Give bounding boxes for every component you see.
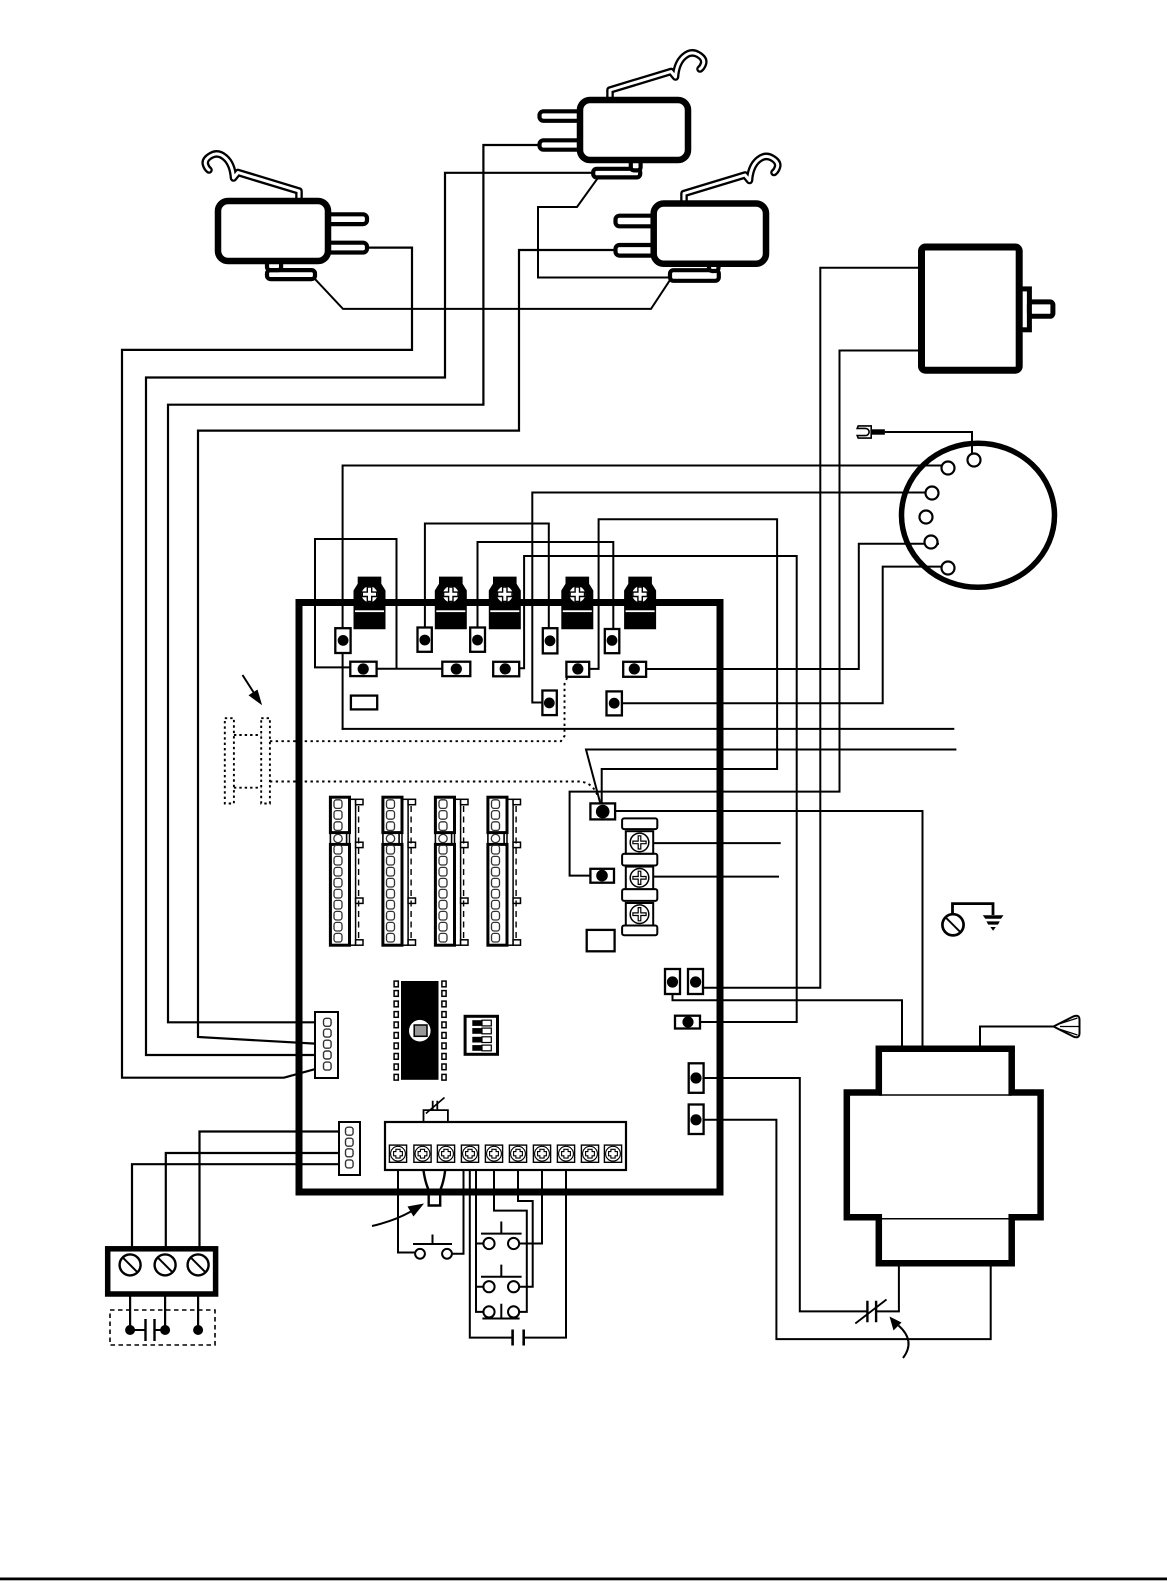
wire nut bbox=[1054, 1016, 1080, 1038]
pushbutton PB1 bbox=[413, 1235, 452, 1259]
pad B1 (row2) bbox=[350, 662, 376, 676]
pad A2 bbox=[418, 628, 432, 652]
connector strip P4 bbox=[488, 797, 521, 945]
relay post K4 bbox=[561, 577, 593, 630]
control board outline bbox=[299, 603, 720, 1193]
wire big-dot terminal D1 to transformer primary bbox=[615, 811, 922, 1049]
pad B2 bbox=[442, 662, 470, 676]
wire big-dot terminal D1 diagonal to blunt end right bbox=[586, 750, 955, 807]
wire board terminal block TB2 screw2 to blunt end bbox=[653, 876, 778, 878]
wire jumper U-link on strip screws 2-3 bbox=[423, 1162, 447, 1206]
spade lug bbox=[857, 426, 885, 438]
lockout capacitor (bottom center) bbox=[513, 1330, 524, 1346]
dot terminal E2 bbox=[689, 1063, 704, 1093]
wire strip screw4 left rail of pushbutton stack bbox=[476, 1162, 483, 1312]
pushbutton PB3 bbox=[481, 1265, 522, 1293]
wire strip screw5 to pushbutton PB4 right bbox=[494, 1162, 527, 1312]
pad A1 (row1 under K1) bbox=[335, 628, 350, 653]
wire noise capacitor right plate to transformer secondary bbox=[878, 1263, 899, 1311]
wire timer dial terminal T3 to pad C1 bbox=[532, 493, 926, 703]
terminal strip TB1 (10 screws) bbox=[385, 1122, 626, 1170]
wire pad B3 riser to single-dot terminal E1 bbox=[510, 556, 797, 1022]
wire surge capacitor leads bbox=[135, 1329, 160, 1331]
wire pad C5 to timer dial terminal T6 bbox=[622, 567, 942, 704]
pad B5 bbox=[623, 662, 646, 677]
wire W2 center-switch bottom terminal to board connector J1 pin4 bbox=[146, 173, 595, 1055]
wire strip screw6 to pushbutton PB3 right bbox=[518, 1162, 533, 1287]
wire relay pad A1 riser to timer dial terminal T2 bbox=[343, 466, 942, 729]
relay post K2 bbox=[435, 577, 467, 630]
empty pad rect top-left bbox=[351, 696, 377, 710]
wire bridge pad A3 to pad A5 bbox=[478, 542, 614, 640]
wire board terminal block TB2 screw1 to blunt end bbox=[653, 842, 780, 844]
arrow pointing to jumper bbox=[372, 1204, 424, 1227]
pad B3 bbox=[493, 662, 519, 677]
wire strip screw4 to pushbutton PB1 right bbox=[452, 1162, 464, 1254]
wire paired-dot terminal F1 to transformer primary bbox=[673, 994, 903, 1049]
wire power block screw3 to connector J2 pin1 bbox=[200, 1132, 348, 1255]
dotted antenna line upper bbox=[270, 678, 567, 742]
arrow pointing to motor start capacitor bbox=[890, 1317, 909, 1359]
ground symbol with screw bbox=[942, 904, 1003, 936]
wire strip screw4 to lockout capacitor left bbox=[470, 1162, 511, 1338]
surge suppressor (dashed box with capacitor) bbox=[110, 1310, 215, 1345]
wire motor lower lead to low-dot terminal D2 bbox=[570, 351, 922, 876]
pad C1 (row3) bbox=[542, 691, 556, 716]
motor M1 (top right) bbox=[922, 247, 1053, 370]
limit switch S1 (left) bbox=[205, 154, 367, 279]
empty pad rect near TB2 bbox=[587, 930, 615, 951]
low-dot terminal D2 bbox=[590, 869, 614, 883]
motor start capacitor (crossed) bbox=[855, 1300, 886, 1324]
RF receiver dotted component (left of board) bbox=[225, 718, 270, 803]
wire transformer lead to wire nut bbox=[980, 1027, 1053, 1049]
power terminal block TB3 (bottom left) bbox=[108, 1249, 216, 1294]
wire strip screw1 to pushbutton PB1 left bbox=[398, 1162, 415, 1253]
pad B4 bbox=[566, 662, 589, 677]
pad A3 bbox=[470, 628, 485, 652]
pad A4 bbox=[543, 628, 558, 653]
wire W3 center-switch lower prong to board connector J1 pin1 bbox=[168, 145, 540, 1022]
dot terminal E3 bbox=[689, 1105, 704, 1135]
wire terminal E2 to noise capacitor left plate bbox=[704, 1078, 866, 1311]
limit switch S3 (right) bbox=[616, 156, 778, 280]
connector strip P1 bbox=[330, 797, 363, 945]
wire power block screw2 to connector J2 pin3 bbox=[166, 1153, 347, 1254]
connector J1 (5-pin, board left) bbox=[315, 1012, 338, 1078]
wire spade lug to timer dial terminal T1 bbox=[886, 432, 972, 454]
paired-dot terminal F1 bbox=[665, 969, 680, 994]
wire WD center-switch bottom terminal to right-switch bottom terminal bbox=[538, 178, 670, 278]
wire strip screw8 to lockout capacitor right bbox=[525, 1162, 566, 1338]
timer dial (circle with terminals) bbox=[902, 443, 1055, 587]
big-dot terminal D1 bbox=[590, 803, 615, 819]
wire W4 right-switch lower prong to board connector J1 pin3 bbox=[198, 250, 616, 1044]
wire W1 left-switch lower prong to board connector J1 pin5 bbox=[122, 248, 412, 1078]
board terminal block TB2 (3 screws) bbox=[622, 818, 657, 935]
arrow pointing to RF receiver bbox=[243, 675, 263, 705]
wire loop bridge over relay K1 to pad B1 bbox=[315, 539, 443, 669]
wire power block screw1 to connector J2 pin4 bbox=[132, 1164, 347, 1254]
relay post K3 bbox=[489, 577, 521, 630]
wire power block screw tails into surge box bbox=[130, 1275, 198, 1325]
transformer T1 bbox=[847, 1049, 1041, 1264]
wire pad B5 to timer dial terminal T5 bbox=[646, 544, 938, 669]
connector strip P3 bbox=[435, 797, 468, 945]
connector J2 (4-pin, board left lower) bbox=[339, 1122, 360, 1175]
wire strip screw7 to pushbutton PB2 right bbox=[519, 1162, 542, 1244]
vacation lock switch PB4 bbox=[482, 1304, 519, 1319]
relay post K1 bbox=[354, 577, 386, 630]
wire bridge pad A2 to pad A4 bbox=[425, 524, 549, 641]
pad C5 bbox=[607, 691, 622, 715]
wire motor upper lead to paired-dot terminal F2 bbox=[704, 268, 922, 988]
single-dot terminal E1 bbox=[675, 1016, 700, 1029]
DIP switch SW1 bbox=[465, 1016, 497, 1054]
wire terminal E3 to transformer secondary bbox=[704, 1120, 991, 1339]
wire W5 left-switch bottom terminal to right-switch bottom terminal bbox=[315, 279, 670, 309]
dotted antenna line lower bbox=[270, 782, 602, 805]
bottom page border line bbox=[0, 1578, 1167, 1581]
RC suppressor bracket above strip bbox=[424, 1110, 448, 1122]
paired-dot terminal F2 bbox=[688, 969, 703, 994]
microcontroller IC U1 bbox=[394, 981, 446, 1080]
pushbutton PB2 bbox=[481, 1222, 522, 1250]
limit switch S2 (top center) bbox=[540, 53, 704, 178]
pad A5 bbox=[605, 629, 620, 653]
connector strip P2 bbox=[383, 797, 416, 945]
relay post K5 bbox=[624, 577, 656, 630]
wire pad A1 through-run to blunt end right bbox=[343, 728, 954, 730]
wire pad B4 riser over board to big-dot terminal D1 bbox=[589, 519, 777, 803]
